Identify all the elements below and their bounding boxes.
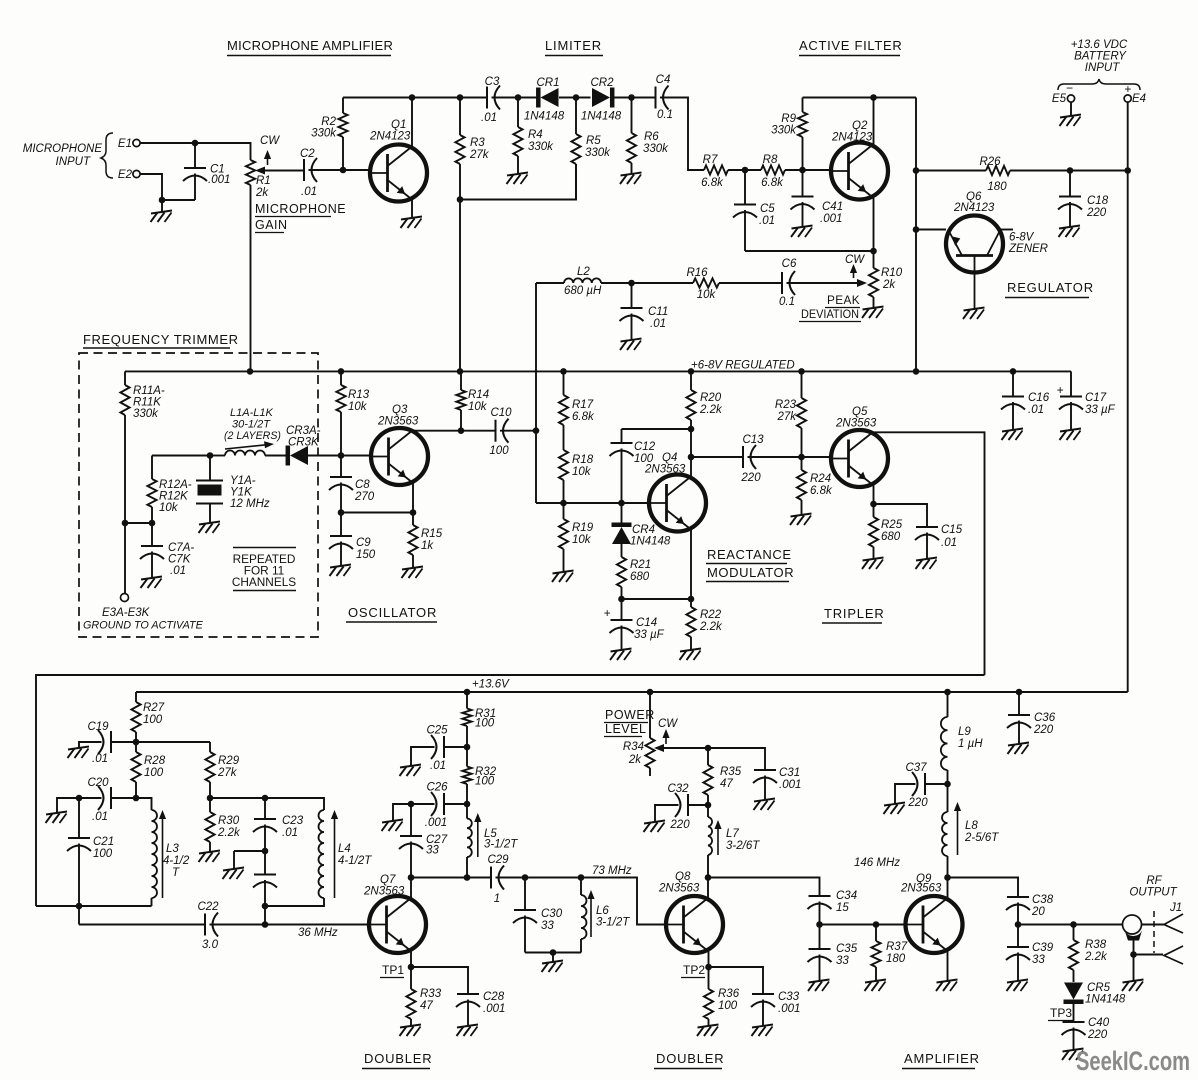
svg-text:R35: R35 [720,766,742,778]
wire C29 to Q8 corner [496,878,666,925]
svg-text:.01: .01 [170,565,186,577]
inductor L4 [319,810,373,898]
crystal Y1A-Y1K 12MHz [196,456,270,524]
capacitor C37 [905,762,928,809]
junction TP2 [705,964,712,971]
svg-text:Y1A-: Y1A- [230,475,256,487]
junction sleeve ground node [1130,951,1137,958]
svg-text:DEVIATION: DEVIATION [801,307,859,321]
resistor R1 pot [246,160,271,371]
svg-text:GROUND TO ACTIVATE: GROUND TO ACTIVATE [83,620,204,632]
junction R37 top [873,921,880,928]
svg-text:220: 220 [1086,207,1107,219]
svg-text:100: 100 [143,714,163,726]
svg-text:C5: C5 [760,203,775,215]
wire C23 node to ground stub [234,850,265,852]
resistor R20 [686,371,723,429]
inductor L3 [152,810,190,906]
svg-text:220: 220 [1033,724,1054,736]
svg-text:(2 LAYERS): (2 LAYERS) [224,430,281,442]
capacitor C18 [1058,171,1109,228]
wire C19 left to ground [79,742,102,748]
wire ground stub down [233,851,235,869]
title AMPLIFIER [902,1051,980,1069]
capacitor C25 [426,725,448,773]
ground below C11 [620,339,642,351]
junction R31 C25 [464,744,471,751]
svg-text:R10: R10 [881,267,903,279]
svg-text:100: 100 [475,718,495,730]
wire C12 top to R20 node [622,428,692,430]
wire E5 to ground [1070,102,1072,116]
wire top rail to regulator corner [915,98,917,230]
svg-text:2.2k: 2.2k [699,404,723,416]
label +13.6V [472,679,510,691]
node E4 terminal [1124,82,1146,105]
wire collector row to C29 [411,877,491,879]
svg-text:1k: 1k [421,540,434,552]
ground below Q1 [401,217,423,229]
svg-text:C7A-: C7A- [168,542,194,554]
junction R13 bottom Q3 base [338,452,345,459]
wire Q6 base lead [916,229,946,231]
svg-text:10k: 10k [697,289,717,301]
capacitor C10 [489,407,512,457]
svg-text:100: 100 [489,445,509,457]
svg-text:C37: C37 [905,762,927,774]
resistor R35 [703,748,741,805]
svg-text:330k: 330k [585,147,611,159]
svg-text:27k: 27k [776,411,797,423]
junction Q4 collector C13 row [688,454,695,461]
wire R11 down to E3A [124,523,126,594]
junction R28 C20 [133,795,140,802]
svg-text:TP3: TP3 [1050,1006,1072,1020]
svg-text:+: + [1056,383,1063,397]
capacitor C19 [87,721,111,765]
wire R8 to Q2 base [785,169,832,171]
junction R6 top [628,94,635,101]
svg-text:680: 680 [881,531,901,543]
junction Q2 emitter / C5 [870,248,877,255]
junction C24 bottom row [262,921,269,928]
svg-text:33: 33 [541,920,554,932]
junction R3 bottom [457,196,464,203]
capacitor C40 [1062,1017,1110,1050]
junction rail L9 [944,689,951,696]
capacitor C8 [329,477,375,513]
junction Q2 collector top [870,94,877,101]
junction C21 top [76,795,83,802]
svg-text:REGULATOR: REGULATOR [1007,280,1094,295]
ground below Y1A [199,522,221,534]
svg-text:C29: C29 [487,854,509,866]
label CW for R1 [260,135,280,165]
svg-text:R23: R23 [775,399,797,411]
title MICROPHONE GAIN [255,202,346,233]
svg-text:C21: C21 [93,836,114,848]
wire R21 node to R22 node [622,598,692,600]
svg-text:R9: R9 [781,113,796,125]
svg-text:2N3563: 2N3563 [644,464,686,476]
svg-text:J1: J1 [1169,902,1182,914]
junction rail R1 wiper line [247,368,254,375]
svg-text:146 MHz: 146 MHz [854,857,900,869]
svg-text:C17: C17 [1085,392,1107,404]
svg-text:36 MHz: 36 MHz [298,927,338,939]
svg-text:R8: R8 [763,154,778,166]
wire Q2 emitter chain to R10 [873,198,875,268]
wire Q3 emitter down [412,483,414,525]
ground below C35 [808,980,830,992]
wire R1 wiper to C2 [261,170,304,172]
wire C13 to Q5 base [748,456,831,458]
svg-text:100: 100 [93,848,113,860]
wire C34 node to Q9 base [820,924,907,926]
svg-text:AMPLIFIER: AMPLIFIER [904,1051,980,1066]
svg-text:R22: R22 [700,609,722,621]
svg-text:330k: 330k [771,125,797,137]
tuning arrow L4 [331,810,338,898]
ground below C25 [400,765,422,777]
junction rail R31 [464,689,471,696]
svg-text:+6-8V REGULATED: +6-8V REGULATED [691,360,795,372]
svg-text:R34: R34 [623,741,644,753]
label CW for R10 [845,254,865,278]
svg-text:C18: C18 [1087,195,1109,207]
svg-text:C15: C15 [941,524,963,536]
junction R35 bottom C32 L7 [705,802,712,809]
svg-text:R21: R21 [630,559,651,571]
wire L1A to CR3 [265,455,287,457]
label MICROPHONE INPUT [23,143,103,168]
wire E1 to R1 top [141,143,251,160]
resistor R13 [336,371,369,455]
svg-text:.001: .001 [778,1003,800,1015]
svg-text:20: 20 [1031,906,1045,918]
junction tank ground Q7 [550,949,557,956]
wire Q5 collector to right [872,432,985,675]
svg-text:R12K: R12K [159,491,189,503]
svg-text:C14: C14 [636,617,657,629]
svg-text:33 µF: 33 µF [634,629,665,641]
wire vertical x536 [535,283,537,503]
ground below R6 [620,173,642,185]
svg-text:2.2k: 2.2k [217,827,241,839]
svg-text:330k: 330k [311,128,337,140]
ground below R10 [862,307,884,319]
tuning arrow L5 [474,813,481,857]
svg-text:R20: R20 [700,392,722,404]
svg-text:1N4148: 1N4148 [581,111,622,123]
junction rail R23 [798,368,805,375]
resistor R8 [761,154,785,189]
tuning arrow L6 [587,890,594,937]
wire top rail Q2 section [803,97,917,99]
junction C1 bottom corner [159,197,166,204]
diode CR1 1N4148 [524,77,565,123]
svg-text:REACTANCE: REACTANCE [707,547,792,562]
label CW for R10 wiper [845,262,846,263]
wire E4 down right edge [1127,102,1129,692]
svg-text:T: T [172,867,180,879]
wire R3 node down to regulated rail [459,200,461,372]
svg-text:R36: R36 [718,988,740,1000]
ground below C17 [1060,429,1082,441]
svg-text:R3: R3 [470,137,485,149]
svg-text:+13.6 VDC: +13.6 VDC [1071,39,1128,51]
diode CR3A-CR3K [286,425,321,466]
svg-text:680 µH: 680 µH [564,285,602,297]
svg-text:2N4123: 2N4123 [831,132,873,144]
svg-text:MICROPHONE AMPLIFIER: MICROPHONE AMPLIFIER [227,38,393,53]
resistor R23 [775,371,806,457]
wire top rail segment D [614,97,656,99]
capacitor C15 [915,524,963,559]
svg-text:2N4123: 2N4123 [953,202,995,214]
ground below C26 [382,820,404,832]
capacitor C36 [1007,692,1056,744]
ground below C39 [1007,980,1029,992]
svg-text:4-1/2: 4-1/2 [163,855,190,867]
svg-text:R12A-: R12A- [159,479,192,491]
svg-text:Q4: Q4 [662,452,677,464]
svg-text:2.2k: 2.2k [699,621,723,633]
svg-text:33 µF: 33 µF [1085,404,1116,416]
wire tank ground stub [552,953,554,963]
junction rail regulator [913,368,920,375]
svg-text:Q8: Q8 [675,871,691,883]
capacitor C34 [808,890,858,925]
wire R27 node to R29 [136,741,210,743]
wire Q9 collector [947,878,949,899]
svg-text:R5: R5 [586,135,601,147]
capacitor C9 [329,513,376,567]
svg-text:180: 180 [987,181,1007,193]
inductor L6 [581,878,630,953]
wire tank bottom Q7 [525,952,581,954]
svg-text:R11A-: R11A- [133,385,165,397]
junction C27 top [408,801,415,808]
svg-text:C40: C40 [1088,1017,1110,1029]
node E3A terminal [121,594,129,602]
ground below C41 [791,226,813,238]
svg-text:R11K: R11K [133,397,162,409]
wire rail corner to R27 [135,692,137,702]
junction rail R17 [560,368,567,375]
svg-text:C10: C10 [490,407,512,419]
svg-text:Q5: Q5 [852,406,868,418]
ground wire stub [0,0,1,1]
svg-text:.01: .01 [430,760,446,772]
wire R7 to R8 [728,169,761,171]
wire E2 to ground corner [141,174,163,212]
junction R27 C19 [133,739,140,746]
junction R5 top [573,94,580,101]
svg-text:C22: C22 [197,901,219,913]
wire R3 bottom to R5 bottom [460,164,576,200]
junction R12 C7 bottom [149,520,156,527]
junction C21 bottom [76,903,83,910]
svg-text:R19: R19 [572,522,594,534]
junction R38 top [1070,921,1077,928]
junction L9 C37 [944,781,951,788]
svg-text:R38: R38 [1085,939,1107,951]
junction C23 C24 [262,848,269,855]
junction R35 top [705,745,712,752]
tuning arrow L1A [225,441,274,449]
junction L6 top [578,874,585,881]
svg-text:R4: R4 [528,129,543,141]
svg-text:MODULATOR: MODULATOR [707,565,794,580]
resistor R6 [627,98,669,175]
wire top rail segment A [343,97,487,99]
wire C2 to Q1 base [309,169,370,171]
resistor R22 [686,607,723,650]
capacitor C33 [751,991,800,1026]
wire crystal node to L1A [210,455,225,457]
svg-text:E4: E4 [1132,93,1146,105]
plug J1 tip contact [1164,914,1183,933]
junction CR4 top base row [618,500,625,507]
svg-text:C19: C19 [87,721,109,733]
wire tank bottom left [36,905,152,907]
junction E4 line / R26 [1124,167,1131,174]
wire C22 row left [79,924,205,926]
svg-text:C33: C33 [778,991,800,1003]
svg-text:Y1K: Y1K [230,487,253,499]
wire sleeve node right [1134,954,1164,956]
capacitor C11 [620,283,669,340]
title DOUBLER 1 [362,1051,432,1069]
wire C13 row [691,456,743,458]
svg-text:330k: 330k [528,141,554,153]
svg-text:2.2k: 2.2k [1084,951,1108,963]
wire top rail segment C [559,97,591,99]
svg-text:30-1/2T: 30-1/2T [232,419,271,431]
ground below R25 [862,558,884,570]
label E3A-E3K GROUND TO ACTIVATE [83,607,204,632]
svg-text:6.8k: 6.8k [572,411,595,423]
junction R14 bottom [458,427,465,434]
resistor R27 [131,702,164,742]
label 146 MHz [854,857,900,869]
junction C23 top [262,795,269,802]
svg-text:C3: C3 [485,76,500,88]
resistor R18 [559,450,594,503]
junction R26 left [913,167,920,174]
capacitor C3 [481,76,500,124]
svg-text:C4: C4 [656,74,671,86]
svg-text:330k: 330k [133,408,159,420]
wire R34 wiper row [656,748,765,770]
capacitor C30 [513,878,563,953]
transistor Q4 2N3563 [644,452,706,532]
svg-text:R6: R6 [644,131,659,143]
wire R13 node down to C8 [340,456,342,478]
wire L4 bottom row [265,898,324,906]
svg-text:C13: C13 [742,434,764,446]
ground below C18 [1059,226,1081,238]
capacitor C32 [667,783,690,831]
resistor R16 [686,267,719,301]
transistor Q1 2N4123 [369,119,427,202]
junction rail C16 [1010,368,1017,375]
capacitor C4 [656,74,674,121]
junction R8/R9/C41 Q2 base [799,167,806,174]
junction rail C36 [1016,689,1023,696]
svg-text:C2: C2 [300,148,315,160]
svg-text:L6: L6 [596,905,609,917]
svg-text:INPUT: INPUT [1085,62,1120,74]
svg-text:C35: C35 [836,943,858,955]
wire Q3 collector [413,431,496,433]
svg-text:LEVEL: LEVEL [605,722,646,736]
svg-text:.01: .01 [650,318,666,330]
label +6-8V REGULATED [691,360,795,372]
svg-text:.001: .001 [425,817,447,829]
resistor R33 [406,988,441,1026]
wire Q8 collector row to C34 [708,878,820,897]
svg-text:E1: E1 [118,138,132,150]
resistor R5 [571,98,611,200]
svg-text:R13: R13 [348,389,370,401]
resistor R4 [513,98,554,175]
ground below C28 [457,1025,479,1037]
svg-text:C34: C34 [836,890,857,902]
svg-text:CW: CW [845,254,865,266]
svg-text:CR2: CR2 [590,77,614,89]
capacitor C5 [733,170,775,251]
svg-text:180: 180 [886,953,906,965]
svg-text:R1: R1 [256,175,271,187]
wire top rail segment B [492,97,537,99]
inductor L9 1uH [941,692,983,784]
svg-text:CR4: CR4 [632,524,655,536]
capacitor C16 [1001,371,1050,430]
ground below R33 [400,1025,422,1037]
svg-text:33: 33 [426,845,439,857]
junction C10 right vertical [533,427,540,434]
wire R11 to R12 bottom [125,522,152,524]
wire C22 to Q7 base [210,924,370,926]
svg-text:C32: C32 [667,783,689,795]
label RF OUTPUT J1 [1129,875,1182,914]
wire Q1 emitter to ground [411,200,413,218]
svg-text:33: 33 [1032,954,1045,966]
junction Q9 collector L8 [944,874,951,881]
resistor R15 [408,525,442,568]
svg-text:2N4123: 2N4123 [369,131,411,143]
svg-text:R2: R2 [321,116,336,128]
ground below E5 [1060,115,1082,127]
ground below C40 [1062,1049,1084,1061]
capacitor C7A-C7K [140,523,194,578]
svg-text:6.8k: 6.8k [761,177,784,189]
svg-text:220: 220 [1087,1029,1108,1041]
wire R16 to C6 [719,282,782,284]
svg-text:3-1/2T: 3-1/2T [596,917,630,929]
svg-text:R17: R17 [572,399,594,411]
junction rail R14 [457,368,464,375]
inductor L5 [467,804,518,878]
junction crystal top [207,452,214,459]
ground below Q9 [936,980,958,992]
svg-text:2k: 2k [882,279,896,291]
svg-text:100: 100 [718,1000,738,1012]
svg-text:.001: .001 [820,213,842,225]
title OSCILLATOR [346,605,437,622]
